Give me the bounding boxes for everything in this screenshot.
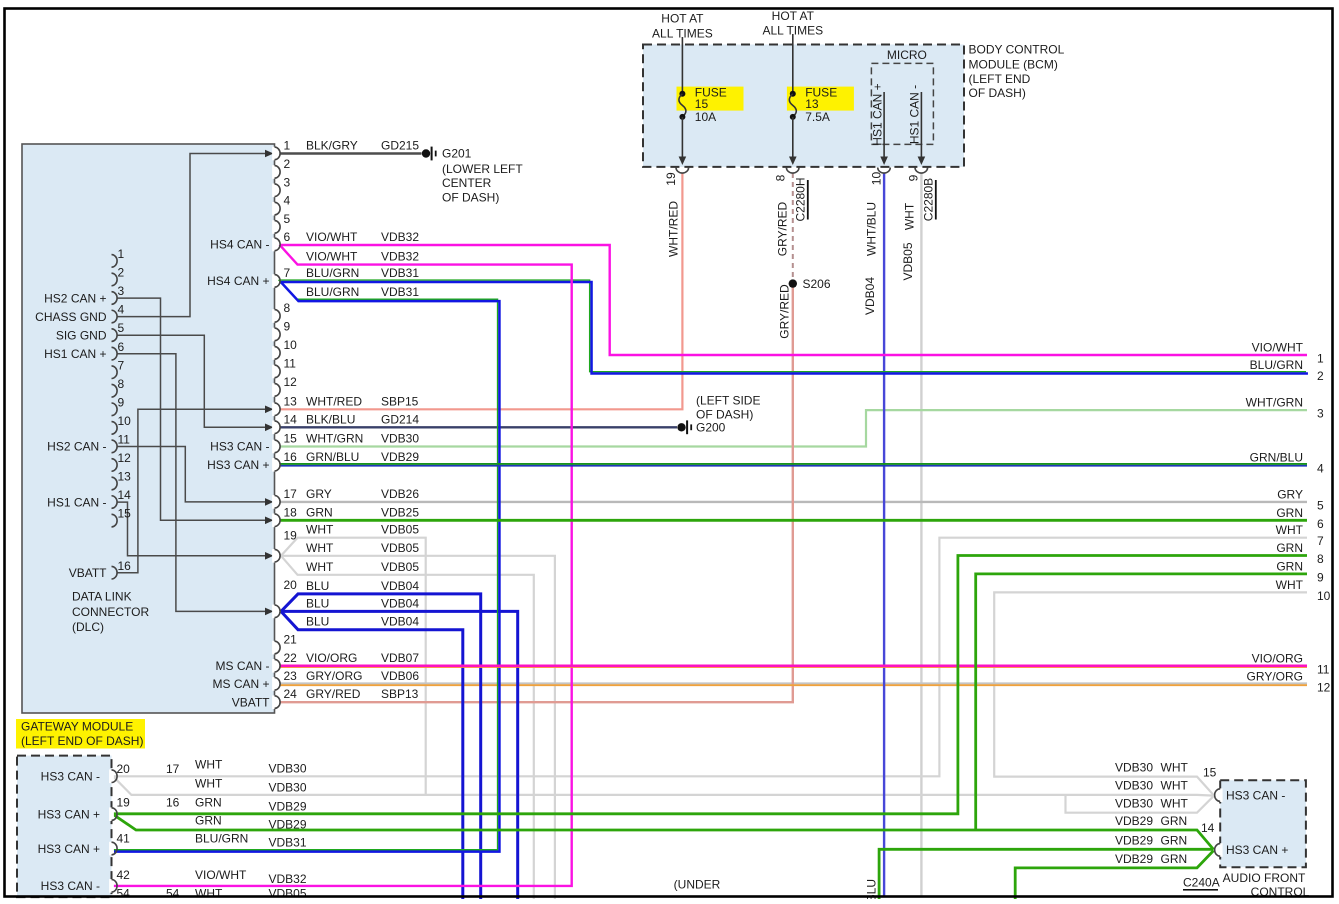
svg-text:BLU/GRN: BLU/GRN [195, 832, 248, 846]
svg-text:VDB06: VDB06 [381, 669, 419, 683]
svg-text:6: 6 [1317, 517, 1324, 531]
svg-text:19: 19 [664, 172, 678, 186]
svg-text:20: 20 [284, 578, 298, 592]
svg-text:VDB05: VDB05 [381, 541, 419, 555]
svg-text:VDB32: VDB32 [381, 250, 419, 264]
svg-text:4: 4 [1317, 461, 1324, 475]
svg-text:11: 11 [1317, 662, 1330, 676]
svg-text:(DLC): (DLC) [72, 620, 104, 634]
svg-text:24: 24 [284, 687, 298, 701]
svg-text:WHT: WHT [1161, 761, 1189, 775]
svg-text:ALL TIMES: ALL TIMES [652, 26, 713, 40]
svg-text:19: 19 [284, 529, 298, 543]
svg-text:HS3 CAN -: HS3 CAN - [41, 770, 100, 784]
svg-text:HS3 CAN -: HS3 CAN - [210, 440, 269, 454]
svg-text:GRN: GRN [195, 796, 222, 810]
svg-text:11: 11 [284, 357, 297, 371]
svg-text:16: 16 [284, 450, 298, 464]
svg-text:HS4 CAN +: HS4 CAN + [207, 274, 269, 288]
svg-text:12: 12 [118, 451, 132, 465]
svg-text:20: 20 [117, 762, 131, 776]
svg-text:VDB30: VDB30 [381, 432, 419, 446]
svg-text:BLU: BLU [306, 615, 329, 629]
svg-text:(LEFT END: (LEFT END [969, 72, 1031, 86]
svg-text:VDB30: VDB30 [1115, 797, 1153, 811]
svg-text:WHT: WHT [306, 541, 334, 555]
svg-text:CENTER: CENTER [442, 176, 492, 190]
svg-text:GATEWAY MODULE: GATEWAY MODULE [21, 720, 133, 734]
svg-text:G201: G201 [442, 147, 472, 161]
svg-text:WHT: WHT [195, 777, 223, 791]
svg-text:GRN: GRN [306, 505, 333, 519]
svg-text:VDB07: VDB07 [381, 651, 419, 665]
svg-text:8: 8 [284, 301, 291, 315]
svg-text:13: 13 [118, 470, 132, 484]
svg-text:VDB04: VDB04 [381, 615, 419, 629]
svg-text:VIO/ORG: VIO/ORG [306, 651, 357, 665]
svg-text:MS CAN -: MS CAN - [216, 659, 270, 673]
svg-text:HS3 CAN -: HS3 CAN - [1226, 788, 1285, 802]
svg-text:GRY: GRY [1277, 487, 1303, 501]
svg-text:(LEFT SIDE: (LEFT SIDE [696, 393, 760, 407]
svg-text:C2280H: C2280H [794, 177, 808, 221]
svg-text:WHT: WHT [1276, 578, 1304, 592]
svg-text:WHT: WHT [903, 202, 917, 230]
svg-text:CHASS GND: CHASS GND [35, 310, 107, 324]
svg-text:VDB30: VDB30 [269, 762, 307, 776]
svg-text:BLU/GRN: BLU/GRN [1250, 358, 1303, 372]
svg-text:13: 13 [805, 97, 819, 111]
svg-text:10: 10 [870, 172, 884, 186]
svg-text:18: 18 [284, 505, 298, 519]
svg-text:VBATT: VBATT [69, 566, 107, 580]
svg-text:GRN: GRN [1161, 852, 1188, 866]
svg-text:HS1 CAN +: HS1 CAN + [871, 83, 885, 145]
svg-text:4: 4 [284, 194, 291, 208]
svg-text:VDB05: VDB05 [381, 560, 419, 574]
svg-text:OF DASH): OF DASH) [969, 86, 1026, 100]
svg-text:6: 6 [118, 340, 125, 354]
svg-text:1: 1 [118, 247, 125, 261]
svg-text:HS1 CAN -: HS1 CAN - [47, 495, 106, 509]
svg-text:VDB32: VDB32 [269, 872, 307, 886]
svg-text:8: 8 [118, 377, 125, 391]
svg-text:1: 1 [284, 139, 291, 153]
svg-text:7: 7 [1317, 534, 1324, 548]
svg-text:21: 21 [284, 633, 298, 647]
svg-text:5: 5 [118, 321, 125, 335]
svg-text:DATA LINK: DATA LINK [72, 590, 132, 604]
svg-text:BLK/GRY: BLK/GRY [306, 139, 358, 153]
svg-text:MICRO: MICRO [887, 48, 927, 62]
svg-text:VDB31: VDB31 [269, 836, 307, 850]
svg-text:VDB05: VDB05 [901, 242, 915, 280]
svg-text:HS4 CAN -: HS4 CAN - [210, 238, 269, 252]
svg-text:VIO/WHT: VIO/WHT [195, 868, 247, 882]
svg-text:GRN: GRN [1276, 559, 1303, 573]
svg-text:17: 17 [166, 762, 180, 776]
svg-text:BLU/GRN: BLU/GRN [306, 285, 359, 299]
svg-text:15: 15 [695, 97, 709, 111]
svg-text:HS1 CAN +: HS1 CAN + [44, 347, 106, 361]
svg-text:VDB30: VDB30 [1115, 779, 1153, 793]
svg-text:S206: S206 [803, 277, 831, 291]
svg-text:9: 9 [1317, 570, 1324, 584]
svg-text:WHT: WHT [306, 523, 334, 537]
svg-text:16: 16 [118, 559, 132, 573]
svg-text:CONNECTOR: CONNECTOR [72, 605, 149, 619]
svg-text:WHT/RED: WHT/RED [667, 201, 681, 257]
svg-text:WHT/RED: WHT/RED [306, 394, 362, 408]
svg-text:MS CAN +: MS CAN + [212, 677, 269, 691]
svg-text:9: 9 [907, 174, 921, 181]
svg-text:GRY/RED: GRY/RED [776, 201, 790, 256]
svg-text:VDB29: VDB29 [269, 800, 307, 814]
svg-text:14: 14 [284, 412, 298, 426]
svg-text:VIO/ORG: VIO/ORG [1252, 651, 1303, 665]
svg-text:3: 3 [1317, 407, 1324, 421]
svg-text:41: 41 [117, 832, 131, 846]
svg-text:WHT: WHT [195, 758, 223, 772]
svg-text:VDB25: VDB25 [381, 505, 419, 519]
svg-text:7.5A: 7.5A [805, 110, 830, 124]
svg-text:BLU: BLU [306, 579, 329, 593]
svg-text:WHT/BLU: WHT/BLU [865, 202, 879, 256]
svg-text:3: 3 [118, 284, 125, 298]
svg-text:3: 3 [284, 175, 291, 189]
svg-text:WHT: WHT [1276, 523, 1304, 537]
svg-text:GRY: GRY [306, 487, 332, 501]
svg-text:GRY/ORG: GRY/ORG [1247, 669, 1303, 683]
svg-text:6: 6 [284, 230, 291, 244]
svg-text:15: 15 [118, 507, 132, 521]
svg-text:VDB04: VDB04 [381, 596, 419, 610]
svg-text:4: 4 [118, 303, 125, 317]
svg-text:HS3 CAN +: HS3 CAN + [207, 458, 269, 472]
svg-text:GRY/RED: GRY/RED [778, 284, 792, 339]
svg-text:2: 2 [284, 157, 291, 171]
svg-text:14: 14 [1201, 821, 1215, 835]
svg-text:16: 16 [166, 796, 180, 810]
svg-text:GRN/BLU: GRN/BLU [306, 450, 359, 464]
svg-text:VDB32: VDB32 [381, 230, 419, 244]
svg-text:AUDIO FRONT: AUDIO FRONT [1223, 871, 1306, 885]
svg-text:SIG GND: SIG GND [56, 328, 107, 342]
svg-text:19: 19 [117, 796, 131, 810]
svg-text:VBATT: VBATT [232, 695, 270, 709]
svg-text:VDB04: VDB04 [863, 277, 877, 315]
svg-text:BLU/GRN: BLU/GRN [306, 266, 359, 280]
svg-text:GRY/ORG: GRY/ORG [306, 669, 362, 683]
svg-text:GRN: GRN [1276, 506, 1303, 520]
svg-text:(UNDER: (UNDER [674, 878, 721, 892]
svg-text:VIO/WHT: VIO/WHT [1252, 341, 1304, 355]
svg-text:42: 42 [117, 868, 131, 882]
svg-text:10: 10 [284, 338, 298, 352]
svg-text:BLU: BLU [306, 596, 329, 610]
svg-text:13: 13 [284, 394, 298, 408]
svg-text:VDB05: VDB05 [381, 523, 419, 537]
svg-text:VDB04: VDB04 [381, 579, 419, 593]
svg-text:GRN/BLU: GRN/BLU [1250, 450, 1303, 464]
svg-text:5: 5 [1317, 498, 1324, 512]
svg-text:23: 23 [284, 669, 298, 683]
svg-text:GRN: GRN [195, 814, 222, 828]
svg-text:WHT: WHT [1161, 797, 1189, 811]
svg-text:BODY CONTROL: BODY CONTROL [969, 43, 1065, 57]
svg-text:5: 5 [284, 212, 291, 226]
svg-text:11: 11 [118, 433, 131, 447]
svg-text:VIO/WHT: VIO/WHT [306, 230, 358, 244]
svg-text:G200: G200 [696, 421, 726, 435]
svg-text:HS3 CAN +: HS3 CAN + [1226, 843, 1288, 857]
svg-text:9: 9 [118, 395, 125, 409]
svg-text:HOT AT: HOT AT [661, 12, 704, 26]
svg-text:2: 2 [1317, 369, 1324, 383]
svg-text:HS3 CAN +: HS3 CAN + [38, 807, 100, 821]
svg-text:10: 10 [1317, 589, 1331, 603]
svg-text:12: 12 [284, 375, 298, 389]
svg-text:1: 1 [1317, 352, 1324, 366]
svg-text:VDB31: VDB31 [381, 266, 419, 280]
svg-text:HS2 CAN +: HS2 CAN + [44, 291, 106, 305]
svg-text:GD215: GD215 [381, 139, 419, 153]
svg-text:WHT/GRN: WHT/GRN [1246, 396, 1303, 410]
svg-text:GRN: GRN [1161, 814, 1188, 828]
svg-text:BLK/BLU: BLK/BLU [306, 412, 355, 426]
svg-text:7: 7 [118, 358, 125, 372]
svg-text:15: 15 [284, 432, 298, 446]
svg-text:VDB31: VDB31 [381, 285, 419, 299]
svg-text:HS3 CAN +: HS3 CAN + [38, 842, 100, 856]
svg-text:10A: 10A [695, 110, 716, 124]
svg-text:VDB29: VDB29 [381, 450, 419, 464]
svg-text:15: 15 [1203, 766, 1217, 780]
svg-text:VDB26: VDB26 [381, 487, 419, 501]
svg-text:SBP15: SBP15 [381, 394, 419, 408]
svg-text:7: 7 [284, 266, 291, 280]
svg-text:VDB29: VDB29 [1115, 814, 1153, 828]
svg-text:C240A: C240A [1183, 876, 1220, 890]
svg-text:MODULE (BCM): MODULE (BCM) [969, 58, 1058, 72]
svg-text:8: 8 [1317, 552, 1324, 566]
svg-text:VDB30: VDB30 [1115, 761, 1153, 775]
svg-text:OF DASH): OF DASH) [696, 408, 753, 422]
svg-text:(LEFT END OF DASH): (LEFT END OF DASH) [21, 734, 143, 748]
svg-text:HS2 CAN -: HS2 CAN - [47, 440, 106, 454]
svg-text:17: 17 [284, 487, 298, 501]
svg-text:(LOWER LEFT: (LOWER LEFT [442, 162, 523, 176]
svg-text:C2280B: C2280B [922, 178, 936, 221]
svg-text:VDB30: VDB30 [269, 781, 307, 795]
svg-text:GD214: GD214 [381, 412, 419, 426]
svg-text:12: 12 [1317, 680, 1331, 694]
svg-text:GRN: GRN [1276, 541, 1303, 555]
svg-text:14: 14 [118, 488, 132, 502]
svg-text:WHT/GRN: WHT/GRN [306, 432, 363, 446]
svg-text:22: 22 [284, 651, 298, 665]
svg-text:HS3 CAN -: HS3 CAN - [41, 879, 100, 893]
svg-text:2: 2 [118, 266, 125, 280]
svg-text:10: 10 [118, 414, 132, 428]
svg-text:WHT: WHT [1161, 779, 1189, 793]
svg-text:WHT: WHT [306, 560, 334, 574]
svg-text:VDB29: VDB29 [1115, 833, 1153, 847]
svg-text:VDB29: VDB29 [1115, 852, 1153, 866]
svg-text:HOT AT: HOT AT [772, 9, 815, 23]
svg-text:VIO/WHT: VIO/WHT [306, 250, 358, 264]
svg-text:HS1 CAN -: HS1 CAN - [908, 85, 922, 144]
svg-text:8: 8 [774, 174, 788, 181]
svg-text:VDB29: VDB29 [269, 818, 307, 832]
svg-text:GRN: GRN [1161, 833, 1188, 847]
svg-text:OF DASH): OF DASH) [442, 190, 499, 204]
svg-text:SBP13: SBP13 [381, 687, 419, 701]
svg-text:ALL TIMES: ALL TIMES [762, 24, 823, 38]
svg-text:GRY/RED: GRY/RED [306, 687, 361, 701]
svg-text:9: 9 [284, 320, 291, 334]
